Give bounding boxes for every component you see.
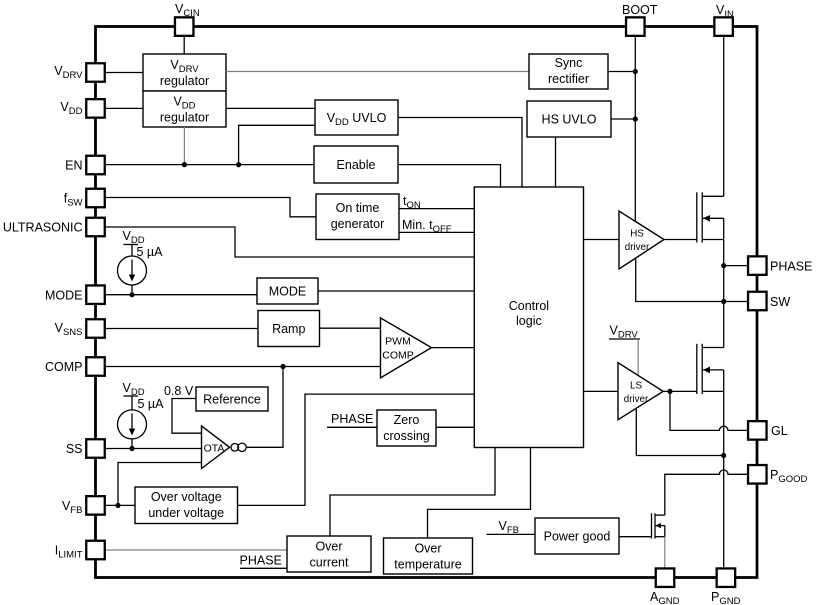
- IC boundary border: [96, 27, 758, 578]
- wire control logic to over temperature: [428, 448, 531, 539]
- svg-text:Power good: Power good: [544, 530, 611, 544]
- transistor LS FET channel bar: [701, 344, 703, 394]
- wire LS driver to LS FET gate: [663, 390, 697, 392]
- svg-text:regulator: regulator: [160, 111, 209, 125]
- junction dot SW: [721, 299, 726, 304]
- pin VSNS: [86, 319, 105, 338]
- block MODE: [257, 278, 318, 304]
- block over temperature: [384, 538, 473, 574]
- svg-text:OTA: OTA: [204, 443, 225, 455]
- pin PGOOD: [748, 465, 767, 484]
- transistor HS FET gate bar: [696, 192, 698, 242]
- wire ULTRASONIC to control logic: [105, 227, 475, 257]
- pin AGND: [656, 568, 675, 587]
- PG FET body to source: [664, 526, 666, 537]
- HS FET drain stub: [702, 195, 724, 197]
- svg-text:BOOT: BOOT: [622, 3, 658, 17]
- pin VDRV: [86, 63, 105, 82]
- wire VSNS to Ramp: [105, 328, 259, 330]
- wire over/under voltage to control logic: [238, 394, 475, 505]
- wire HS FET source down to LS FET drain: [723, 218, 725, 347]
- block zero crossing: [377, 410, 436, 446]
- pin BOOT: [626, 17, 645, 35]
- block control logic: [474, 187, 583, 448]
- OTA output circles: [231, 444, 239, 452]
- op-amp LS driver: [618, 363, 663, 420]
- current source 1 supply bar: [124, 244, 139, 246]
- op-amp PWM COMP: [381, 318, 432, 378]
- junction dot SS net: [129, 446, 134, 451]
- junction dot VFB net: [115, 503, 120, 508]
- svg-text:LS: LS: [630, 381, 642, 392]
- wire min tOFF to control logic: [399, 231, 474, 233]
- svg-text:COMP: COMP: [45, 360, 83, 374]
- svg-text:5 µA: 5 µA: [138, 397, 165, 411]
- svg-text:generator: generator: [331, 217, 385, 231]
- block on time generator: [316, 194, 399, 240]
- svg-text:ULTRASONIC: ULTRASONIC: [3, 221, 83, 235]
- block VDD regulator: [143, 91, 226, 127]
- pin PGND: [717, 568, 736, 587]
- svg-text:0.8 V: 0.8 V: [164, 384, 194, 398]
- wire SS to OTA: [105, 448, 202, 450]
- svg-text:Sync: Sync: [555, 56, 583, 70]
- pin ILIMIT: [86, 541, 105, 560]
- wire sync rectifier to BOOT net: [608, 71, 635, 73]
- wire COMP to PWM comparator: [105, 366, 381, 368]
- op-amp HS driver: [619, 211, 664, 269]
- wire PHASE into over current: [240, 567, 287, 569]
- svg-text:logic: logic: [516, 314, 542, 328]
- svg-text:crossing: crossing: [383, 429, 430, 443]
- svg-text:COMP: COMP: [382, 350, 414, 362]
- block Ramp: [258, 311, 320, 347]
- wire zero crossing to control logic: [436, 426, 474, 428]
- wire HS UVLO to control logic top: [555, 137, 557, 187]
- svg-text:SS: SS: [66, 442, 83, 456]
- pin ULTRASONIC: [86, 218, 105, 237]
- svg-text:PHASE: PHASE: [240, 554, 282, 568]
- wire VDD regulator to VDD UVLO: [226, 107, 315, 109]
- wire ILIMIT to over current: [105, 549, 288, 551]
- wire VIN net down to HS FET drain: [723, 36, 725, 196]
- wire PHASE into zero crossing: [327, 426, 377, 428]
- svg-text:MODE: MODE: [269, 285, 307, 299]
- pin COMP: [86, 357, 105, 376]
- block sync rectifier: [529, 54, 608, 89]
- block Enable: [314, 146, 398, 183]
- svg-text:regulator: regulator: [160, 74, 209, 88]
- svg-text:rectifier: rectifier: [548, 72, 589, 86]
- wire VDD regulator down to EN net: [183, 127, 185, 165]
- svg-text:Reference: Reference: [203, 393, 261, 407]
- wire LS driver return: [636, 408, 723, 455]
- wire tON to control logic: [399, 208, 474, 210]
- svg-text:PHASE: PHASE: [770, 260, 812, 274]
- wire VCIN to VDRV regulator: [183, 36, 185, 54]
- svg-text:HS UVLO: HS UVLO: [542, 113, 597, 127]
- svg-text:current: current: [310, 556, 349, 570]
- wire LS FET source down to PGND: [723, 370, 725, 569]
- wire Ramp to PWM comparator: [320, 327, 381, 329]
- wire control logic to LS driver: [584, 390, 619, 392]
- svg-text:driver: driver: [625, 242, 650, 253]
- wire Enable to control logic: [398, 165, 501, 187]
- transistor PG FET channel bar: [654, 513, 656, 538]
- svg-text:Over voltage: Over voltage: [151, 490, 222, 504]
- LS FET drain stub: [702, 347, 724, 349]
- wire HS driver return to SW net: [636, 258, 748, 302]
- wire PGOOD pin with hop to PG FET drain: [665, 470, 748, 515]
- wire HS driver to HS FET gate: [664, 239, 697, 241]
- wire VDRV pin to VDRV regulator: [105, 72, 144, 74]
- svg-text:Over: Over: [315, 540, 342, 554]
- junction dot BOOT-HSUVLO: [633, 116, 638, 121]
- pin EN: [86, 156, 105, 175]
- transistor HS FET channel bar: [701, 192, 703, 242]
- svg-text:Enable: Enable: [337, 158, 376, 172]
- svg-text:MODE: MODE: [45, 289, 83, 303]
- pin GL: [748, 421, 767, 440]
- junction dot EN net 1: [182, 162, 187, 167]
- op-amp OTA: [202, 426, 230, 469]
- HS FET source stub: [702, 239, 724, 241]
- block HS UVLO: [527, 101, 611, 137]
- pin PHASE: [748, 256, 767, 275]
- svg-text:Over: Over: [414, 542, 441, 556]
- wire OTA output to COMP net: [246, 367, 283, 448]
- PG FET body stub with arrow: [655, 525, 665, 527]
- svg-text:5 µA: 5 µA: [137, 245, 164, 259]
- wire LS driver output to GL pin with hop: [670, 391, 748, 430]
- wire PWM COMP to control logic: [432, 347, 475, 349]
- junction dot EN net 2: [236, 162, 241, 167]
- svg-text:temperature: temperature: [394, 558, 461, 572]
- current source 2 supply bar: [124, 395, 139, 397]
- svg-text:driver: driver: [624, 394, 649, 405]
- wire VFB into power good: [487, 533, 536, 535]
- pin VCIN: [175, 17, 194, 35]
- HS FET body stub with arrow: [702, 217, 724, 219]
- wire VDRV bar to LS driver: [637, 339, 639, 376]
- svg-text:under voltage: under voltage: [148, 506, 224, 520]
- pin SS: [86, 439, 105, 458]
- svg-text:SW: SW: [770, 295, 790, 309]
- junction dot BOOT-sync: [633, 69, 638, 74]
- pin VIN: [714, 17, 733, 35]
- wire fSW to on-time generator: [105, 198, 317, 217]
- junction dot LS driver output: [667, 389, 672, 394]
- wire MODE block to control logic: [318, 290, 474, 292]
- wire control logic to HS driver: [584, 239, 620, 241]
- wire control logic to over current: [330, 448, 495, 537]
- LS FET source stub: [702, 390, 724, 392]
- wire PG FET source to AGND: [664, 537, 666, 569]
- block Reference: [196, 387, 268, 411]
- wire VDD UVLO to control logic: [398, 118, 522, 188]
- current source 1: [131, 245, 133, 257]
- junction dot PHASE: [721, 263, 726, 268]
- junction dot MODE net: [129, 292, 134, 297]
- pin VDD: [86, 99, 105, 118]
- junction dot COMP net: [280, 364, 285, 369]
- svg-text:PHASE: PHASE: [331, 412, 373, 426]
- wire VFB to OTA inverting input: [118, 463, 202, 506]
- wire MODE pin to MODE block: [105, 294, 258, 296]
- wire VDRV regulator to sync rectifier: [226, 71, 529, 73]
- svg-text:Control: Control: [509, 299, 549, 313]
- transistor PG FET gate bar: [651, 513, 653, 538]
- wire to PHASE pin: [724, 265, 748, 267]
- svg-text:EN: EN: [65, 159, 82, 173]
- PG FET gate input: [619, 536, 652, 538]
- svg-text:Ramp: Ramp: [272, 322, 305, 336]
- block over voltage under voltage: [135, 487, 238, 524]
- svg-text:PWM: PWM: [385, 336, 411, 348]
- PG FET drain stub: [655, 514, 665, 516]
- wire EN net up to VDD UVLO: [239, 125, 315, 164]
- wire Reference to OTA non-inverting input: [172, 399, 202, 434]
- block VDD UVLO: [315, 100, 398, 135]
- svg-text:GL: GL: [771, 424, 788, 438]
- block power good: [535, 518, 619, 554]
- svg-text:HS: HS: [630, 229, 644, 240]
- wire BOOT net down to HS driver: [634, 36, 636, 221]
- pin SW: [748, 292, 767, 311]
- wire HS UVLO to BOOT net: [611, 118, 635, 120]
- wire EN pin to Enable: [105, 164, 315, 166]
- pin fSW: [86, 189, 105, 208]
- VDRV supply bar: [609, 338, 640, 340]
- svg-text:Zero: Zero: [394, 413, 420, 427]
- pin MODE: [86, 285, 105, 304]
- svg-text:On time: On time: [336, 201, 380, 215]
- PG FET source stub: [655, 536, 665, 538]
- block VDRV regulator: [143, 54, 226, 91]
- block over current: [287, 536, 371, 572]
- LS FET body stub with arrow: [702, 369, 724, 371]
- transistor LS FET gate bar: [696, 344, 698, 394]
- pin VFB: [86, 496, 105, 515]
- wire VDD pin to VDD regulator: [105, 107, 144, 109]
- current source 2: [131, 396, 133, 410]
- wire VFB to over/under voltage: [105, 504, 136, 506]
- junction dot LS return: [721, 453, 726, 458]
